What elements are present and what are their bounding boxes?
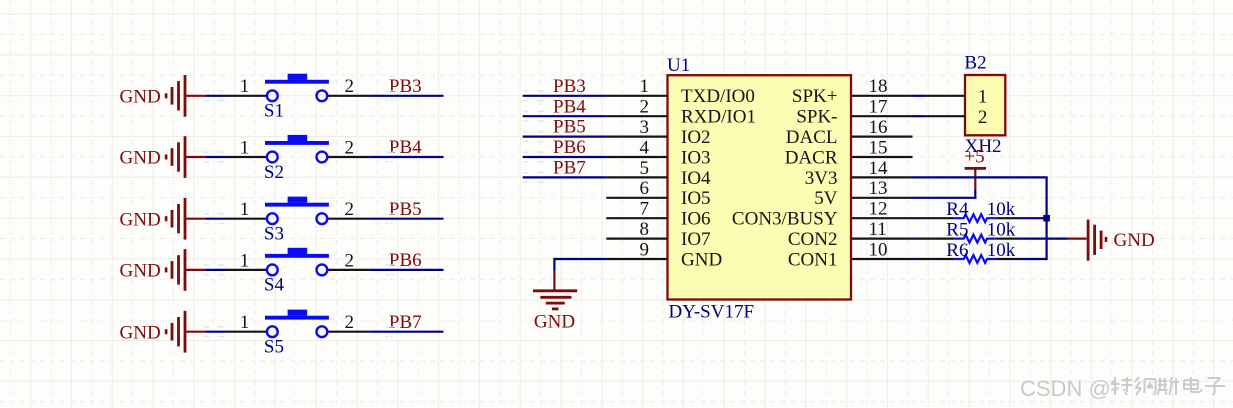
U1 pin 5 (IO4) xyxy=(606,158,711,189)
wire (net PB7 to U1 pin 5) xyxy=(523,176,607,178)
svg-text:IO6: IO6 xyxy=(681,209,711,230)
wire (net PB4 to U1 pin 2) xyxy=(523,115,607,117)
svg-text:IO5: IO5 xyxy=(681,188,711,209)
U1 pin 13 (5V) xyxy=(814,178,912,209)
svg-text:DY-SV17F: DY-SV17F xyxy=(669,302,755,323)
U1 pin 18 (SPK+) xyxy=(792,76,913,107)
connector B2 XH2 body xyxy=(965,75,1005,135)
svg-text:10k: 10k xyxy=(987,199,1016,220)
switch S4 xyxy=(226,248,369,296)
wire (R5 to GND port) xyxy=(1018,238,1068,240)
svg-text:18: 18 xyxy=(869,76,888,97)
wire (U1 pin 14 3V3 to pull-up rail) xyxy=(913,176,1048,178)
wire (S2 pin 2 to net PB4) xyxy=(369,156,443,158)
U1 pin 14 (3V3) xyxy=(805,158,913,189)
switch S1 xyxy=(226,74,369,122)
wire (U1 pin 18 to B2 pin 1) xyxy=(913,95,925,97)
wire (U1 pin 11 to R5) xyxy=(913,238,915,240)
svg-text:PB5: PB5 xyxy=(389,199,422,220)
U1 pin 16 (DACL) xyxy=(786,117,913,148)
svg-text:+5: +5 xyxy=(964,146,984,167)
power port GND (row S4) xyxy=(120,249,206,291)
power port GND (row S5) xyxy=(120,311,206,353)
svg-text:PB6: PB6 xyxy=(389,250,422,271)
wire (net PB3 to U1 pin 1) xyxy=(523,95,607,97)
svg-text:GND: GND xyxy=(1114,230,1155,251)
svg-text:IO3: IO3 xyxy=(681,147,711,168)
wire (net PB6 to U1 pin 4) xyxy=(523,156,607,158)
wire (R6 to rail) xyxy=(1018,258,1047,260)
svg-text:S4: S4 xyxy=(264,275,285,296)
svg-text:12: 12 xyxy=(869,199,888,220)
svg-text:TXD/IO0: TXD/IO0 xyxy=(681,86,755,107)
wire (U1 pin 9 to ground) xyxy=(553,258,606,260)
svg-text:S5: S5 xyxy=(264,337,284,358)
wire (S5 pin 2 to net PB7) xyxy=(369,331,443,333)
svg-text:3V3: 3V3 xyxy=(805,168,838,189)
svg-text:8: 8 xyxy=(640,219,650,240)
power port GND (right) xyxy=(1068,220,1155,261)
svg-text:17: 17 xyxy=(869,97,888,118)
svg-text:SPK+: SPK+ xyxy=(792,86,838,107)
wire (S3 pin 2 to net PB5) xyxy=(369,218,443,220)
svg-text:S3: S3 xyxy=(264,224,284,245)
wire (GND to S3 pin 1) xyxy=(205,218,226,220)
svg-text:PB3: PB3 xyxy=(389,76,422,97)
U1 pin 12 (CON3/BUSY) xyxy=(732,199,913,230)
svg-text:15: 15 xyxy=(869,137,888,158)
svg-text:2: 2 xyxy=(344,199,354,220)
svg-text:CON3/BUSY: CON3/BUSY xyxy=(732,209,838,230)
svg-text:2: 2 xyxy=(344,312,354,333)
svg-text:PB4: PB4 xyxy=(389,137,422,158)
resistor R6 10k xyxy=(915,240,1018,263)
svg-text:1: 1 xyxy=(240,76,250,97)
svg-text:14: 14 xyxy=(869,158,889,179)
svg-text:13: 13 xyxy=(869,178,888,199)
svg-text:2: 2 xyxy=(344,76,354,97)
svg-text:5V: 5V xyxy=(814,188,838,209)
svg-text:1: 1 xyxy=(240,312,250,333)
svg-text:3: 3 xyxy=(640,117,650,138)
U1 pin 1 (TXD/IO0) xyxy=(606,76,755,107)
svg-text:PB3: PB3 xyxy=(553,76,586,97)
U1 pin 11 (CON2) xyxy=(788,219,913,250)
svg-text:6: 6 xyxy=(640,178,650,199)
svg-text:CSDN @: CSDN @ xyxy=(1020,376,1111,401)
svg-text:R5: R5 xyxy=(946,219,968,240)
wire (GND to S1 pin 1) xyxy=(205,95,226,97)
power port GND (row S3) xyxy=(120,198,206,240)
switch S2 xyxy=(226,135,369,183)
svg-text:11: 11 xyxy=(869,219,887,240)
wire (net PB5 to U1 pin 3) xyxy=(523,136,607,138)
svg-text:9: 9 xyxy=(640,239,650,260)
wire (U1 pin 10 to R6) xyxy=(913,258,915,260)
svg-text:4: 4 xyxy=(640,137,650,158)
switch S3 xyxy=(226,197,369,245)
U1 pin 15 (DACR) xyxy=(785,137,913,168)
svg-text:GND: GND xyxy=(120,322,161,343)
U1 pin 17 (SPK-) xyxy=(796,97,912,128)
svg-text:R4: R4 xyxy=(946,199,969,220)
svg-text:PB7: PB7 xyxy=(389,312,422,333)
watermark CSDN @特纳斯电子 xyxy=(1020,376,1225,401)
U1 pin 7 (IO6) xyxy=(606,199,710,230)
U1 pin 3 (IO2) xyxy=(606,117,710,148)
U1 pin 6 (IO5) xyxy=(606,178,710,209)
svg-text:10k: 10k xyxy=(987,219,1016,240)
svg-text:1: 1 xyxy=(240,250,250,271)
svg-text:2: 2 xyxy=(640,97,650,118)
svg-text:10k: 10k xyxy=(987,240,1016,261)
wire (S1 pin 2 to net PB3) xyxy=(369,95,443,97)
svg-text:PB4: PB4 xyxy=(553,96,586,117)
svg-text:GND: GND xyxy=(120,148,161,169)
junction (rail / R4) xyxy=(1043,215,1050,222)
svg-text:S2: S2 xyxy=(264,162,284,183)
wire (pull-up rail vertical) xyxy=(1045,177,1047,260)
svg-text:IO7: IO7 xyxy=(681,229,711,250)
svg-text:CON1: CON1 xyxy=(788,249,838,270)
switch S5 xyxy=(226,310,369,358)
svg-text:IO4: IO4 xyxy=(681,168,711,189)
U1 pin 9 (GND) xyxy=(606,239,722,270)
svg-text:GND: GND xyxy=(534,312,575,333)
svg-text:RXD/IO1: RXD/IO1 xyxy=(681,107,756,128)
U1 pin 4 (IO3) xyxy=(606,137,710,168)
wire (GND to S4 pin 1) xyxy=(205,269,226,271)
svg-text:GND: GND xyxy=(681,249,722,270)
svg-text:U1: U1 xyxy=(667,55,690,76)
svg-text:1: 1 xyxy=(240,199,250,220)
wire (U1 pin 17 to B2 pin 2) xyxy=(913,115,925,117)
svg-text:1: 1 xyxy=(978,86,988,107)
svg-text:1: 1 xyxy=(240,137,250,158)
wire (R4 to rail) xyxy=(1018,217,1047,219)
svg-text:2: 2 xyxy=(978,107,988,128)
svg-text:16: 16 xyxy=(869,117,888,138)
svg-text:DACL: DACL xyxy=(786,127,838,148)
svg-text:PB6: PB6 xyxy=(553,137,586,158)
wire (U1 pin 13 5V to +5 port) xyxy=(913,197,977,199)
svg-text:PB7: PB7 xyxy=(553,158,586,179)
svg-text:5: 5 xyxy=(640,158,650,179)
svg-text:PB5: PB5 xyxy=(553,117,586,138)
IC U1 DY-SV17F body xyxy=(668,75,852,299)
svg-text:B2: B2 xyxy=(964,52,986,73)
svg-text:CON2: CON2 xyxy=(788,229,838,250)
power port GND (row S1) xyxy=(120,75,206,117)
U1 pin 8 (IO7) xyxy=(606,219,710,250)
svg-text:2: 2 xyxy=(344,137,354,158)
ground symbol (earth) below U1 xyxy=(533,272,577,333)
svg-text:GND: GND xyxy=(120,86,161,107)
B2 pin 2 xyxy=(925,107,988,128)
svg-text:IO2: IO2 xyxy=(681,127,711,148)
resistor R5 10k xyxy=(915,219,1018,242)
U1 pin 10 (CON1) xyxy=(788,239,913,270)
svg-text:7: 7 xyxy=(640,199,650,220)
svg-text:GND: GND xyxy=(120,261,161,282)
svg-text:10: 10 xyxy=(869,239,888,260)
power port GND (row S2) xyxy=(120,136,206,178)
resistor R4 10k xyxy=(915,199,1018,222)
U1 pin 2 (RXD/IO1) xyxy=(606,97,756,128)
svg-text:1: 1 xyxy=(640,76,650,97)
wire (GND to S2 pin 1) xyxy=(205,156,226,158)
svg-text:R6: R6 xyxy=(946,240,968,261)
svg-text:SPK-: SPK- xyxy=(796,107,837,128)
svg-text:S1: S1 xyxy=(264,101,284,122)
B2 pin 1 xyxy=(925,86,988,107)
wire (U1 pin 12 to R4) xyxy=(913,217,915,219)
svg-text:DACR: DACR xyxy=(785,147,838,168)
wire (GND to S5 pin 1) xyxy=(205,331,226,333)
svg-text:GND: GND xyxy=(120,209,161,230)
power port +5 xyxy=(964,146,986,188)
svg-text:2: 2 xyxy=(344,250,354,271)
wire (S4 pin 2 to net PB6) xyxy=(369,269,443,271)
